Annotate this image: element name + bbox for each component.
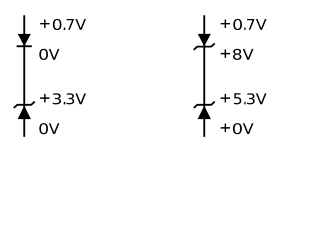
label +0.7V right xyxy=(221,19,267,30)
zener diode D4 triangle xyxy=(198,106,211,119)
label +0V right xyxy=(221,123,254,134)
label +0.7V left xyxy=(40,19,86,30)
zener diode D3 triangle (top right, cathode down) xyxy=(198,34,211,46)
label 0V left upper xyxy=(39,49,59,60)
label 0V left lower xyxy=(39,123,59,134)
diode D1 cathode bar xyxy=(17,45,32,47)
label +8V right xyxy=(221,49,254,60)
label +3.3V left xyxy=(40,93,86,104)
zener diode D2 bar with bent tails (bottom left, cathode up) xyxy=(14,102,35,108)
zener diode D4 bar with bent tails (bottom right, cathode up) xyxy=(194,102,215,108)
diode D1 triangle (top left, cathode down) xyxy=(18,34,31,46)
label +5.3V right xyxy=(221,93,267,104)
zener diode D2 triangle xyxy=(18,106,31,119)
wire left branch xyxy=(23,15,25,137)
zener diode D3 bar with bent tails xyxy=(194,43,215,49)
wire right branch xyxy=(203,15,205,137)
